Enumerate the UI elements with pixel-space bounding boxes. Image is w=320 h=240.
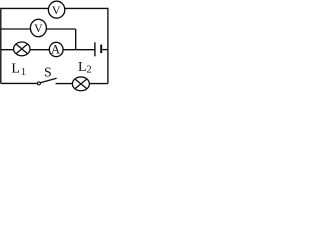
wire bottom right	[56, 83, 108, 85]
wire right edge	[107, 8, 109, 84]
wire left edge	[0, 8, 2, 84]
label L2	[78, 60, 92, 76]
voltmeter V2	[30, 19, 46, 36]
wire row3	[1, 49, 95, 51]
switch S blade	[40, 78, 56, 83]
svg-text:S: S	[44, 65, 52, 80]
svg-text:V: V	[34, 21, 43, 35]
svg-text:L: L	[11, 62, 20, 77]
svg-text:V: V	[52, 3, 61, 17]
label L1	[11, 62, 26, 78]
battery B1 plate long	[94, 42, 96, 56]
wire row2	[1, 28, 76, 30]
lamp L1	[14, 42, 30, 56]
wire row3 right of battery	[102, 49, 108, 51]
voltmeter V1	[48, 1, 64, 18]
svg-text:2: 2	[86, 64, 91, 75]
switch S pivot	[37, 82, 40, 85]
svg-text:A: A	[51, 43, 60, 57]
wire top	[1, 7, 108, 9]
svg-text:1: 1	[21, 67, 26, 78]
ammeter A1	[49, 42, 63, 56]
lamp L2	[72, 77, 89, 91]
svg-text:L: L	[78, 60, 87, 75]
wire bottom left	[1, 82, 38, 84]
wire row2 drop	[75, 29, 77, 50]
battery B1 plate short	[100, 45, 102, 54]
